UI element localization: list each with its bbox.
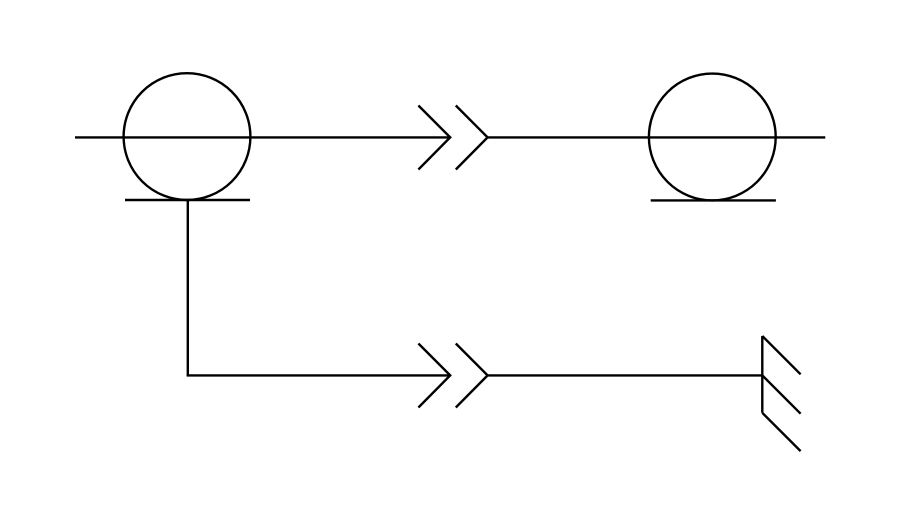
wall / fixed support: vertical bar bbox=[761, 336, 763, 413]
wire: vertical drop from bottom of left circle bbox=[187, 200, 189, 375]
chevron 1 of bottom double-arrow bbox=[418, 344, 450, 408]
wire: top-left horizontal lead through left circle to first chevron tip bbox=[75, 136, 450, 138]
ground bar under right circle bbox=[651, 199, 776, 201]
ground bar under left circle bbox=[125, 199, 250, 201]
wire: bottom-left horizontal segment to first lower chevron tip bbox=[187, 374, 451, 376]
wall hatch line (middle) bbox=[762, 375, 800, 413]
wall hatch line (bottom) bbox=[762, 413, 800, 451]
chevron 2 of top double-arrow bbox=[456, 106, 488, 170]
chevron 2 of bottom double-arrow bbox=[456, 344, 488, 408]
chevron 1 of top double-arrow bbox=[418, 106, 450, 170]
wire: top-right horizontal segment through right circle bbox=[488, 136, 826, 138]
wire: bottom-right horizontal segment to wall support bbox=[488, 374, 763, 376]
circle element (right wheel/indicator) bbox=[649, 74, 776, 201]
circle element (left wheel/indicator) bbox=[124, 73, 251, 200]
wall hatch line (top) bbox=[762, 336, 800, 374]
